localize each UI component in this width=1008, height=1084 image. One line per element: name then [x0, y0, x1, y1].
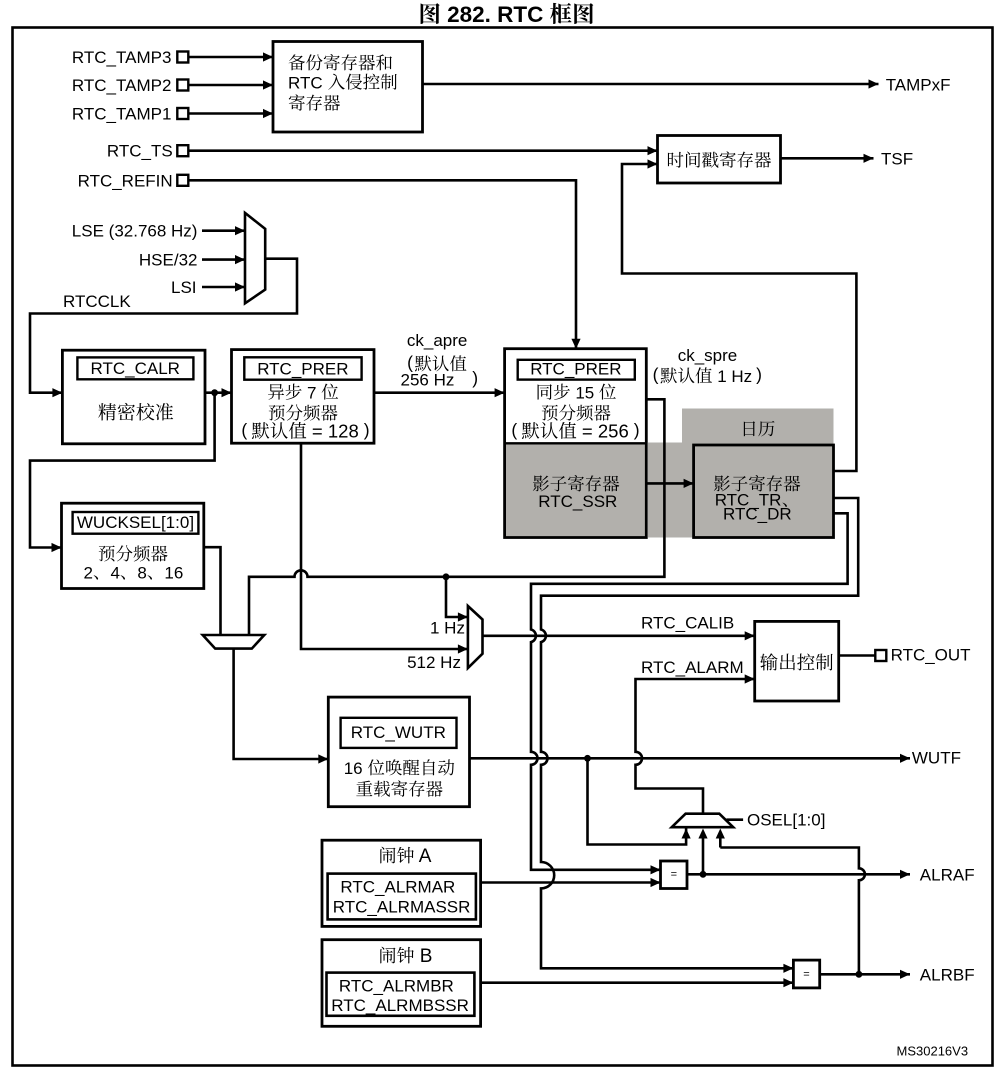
svg-text:ck_apre: ck_apre [407, 331, 467, 350]
svg-text:RTC_ALRMAR: RTC_ALRMAR [340, 878, 455, 897]
svg-text:RTC_CALR: RTC_CALR [91, 359, 180, 378]
wire RTC_TAMP3 [188, 56, 273, 59]
backup and tamper control registers box [273, 42, 423, 133]
arrow OSEL input ALRAF [698, 829, 707, 839]
arrow into async prescaler [222, 388, 232, 397]
wire calendar to timestamp [622, 164, 856, 471]
arrow RTCCLK into RTC_CALR [52, 388, 62, 397]
async prescaler text1 [268, 384, 302, 400]
sync prescaler text2 [542, 404, 611, 420]
RTC_WUTR title box [341, 718, 457, 748]
wire alarm B out [481, 981, 794, 984]
TR DR text1 [714, 475, 800, 491]
arrow into WUCKSEL prescaler [52, 543, 62, 552]
pad RTC_TAMP1 [177, 108, 188, 119]
svg-text:RTC_SSR: RTC_SSR [538, 492, 617, 511]
wire RTC_REFIN [188, 180, 576, 348]
wire TAMPxF [423, 83, 879, 86]
svg-text:RTC_DR: RTC_DR [723, 505, 792, 524]
clock source mux [245, 213, 265, 303]
arrow TAMPxF [869, 79, 879, 88]
pad RTC_OUT [875, 650, 886, 661]
wire calendar rail B [541, 498, 858, 968]
wire RTC_CALIB [483, 634, 755, 637]
WUCKSEL title box [73, 512, 199, 534]
WUCKSEL text1 [99, 545, 168, 561]
wire RTC_OUT [839, 654, 876, 657]
arrow into RTC_WUTR [318, 754, 328, 763]
arrow OSEL input ALRBF [716, 829, 725, 839]
arrow calendar into timestamp [648, 159, 658, 168]
wire OSEL input ALRAF [702, 837, 705, 874]
svg-text:RTC_REFIN: RTC_REFIN [78, 171, 173, 190]
wire RTCCLK branch to WUCKSEL [30, 393, 215, 548]
arrow alarm B into comparator B [783, 978, 793, 987]
timestamp register box [658, 136, 781, 184]
RTC_WUTR text2 [356, 780, 442, 796]
pad RTC_TAMP3 [177, 52, 188, 63]
svg-text:1 Hz: 1 Hz [430, 618, 465, 637]
calibration output mux [468, 606, 483, 668]
svg-text:RTC_TAMP2: RTC_TAMP2 [72, 76, 172, 95]
svg-text:RTC_ALRMBSSR: RTC_ALRMBSSR [331, 996, 469, 1015]
svg-text:RTCCLK: RTCCLK [63, 292, 131, 311]
svg-text:RTC_WUTR: RTC_WUTR [351, 723, 446, 742]
arrow LSE [235, 226, 245, 235]
arrow alarm A into comparator A [651, 878, 661, 887]
arrow RTC_TS into timestamp box [648, 146, 658, 155]
svg-text:RTC: RTC [288, 73, 327, 92]
svg-text:7: 7 [302, 383, 321, 402]
alarm A box [322, 840, 481, 926]
svg-text:): ) [364, 420, 370, 440]
svg-text:ALRAF: ALRAF [920, 865, 975, 884]
comparator B box [793, 960, 819, 988]
async prescaler text2 [269, 404, 338, 420]
svg-text:=: = [803, 968, 809, 980]
wire ck_spre rail [249, 399, 664, 635]
calendar shade bridge [648, 443, 695, 538]
pad RTC_REFIN [177, 175, 188, 186]
svg-text:2: 2 [84, 563, 93, 582]
wire 512 Hz [301, 443, 468, 649]
calendar shade top [682, 409, 834, 447]
wire RTCCLK [30, 259, 297, 393]
wire RTC_TAMP2 [188, 84, 273, 87]
svg-text:TSF: TSF [881, 149, 913, 168]
wire wakeup mux out [234, 649, 329, 759]
arrow RTC_TAMP1 [263, 109, 273, 118]
wire ck_apre [374, 391, 505, 394]
svg-text:OSEL[1:0]: OSEL[1:0] [747, 811, 825, 830]
svg-text:(: ( [241, 420, 247, 440]
arrow 1 Hz into mux [458, 612, 468, 621]
title 图 282. RTC 框图 [421, 3, 440, 24]
arrow RTC_ALARM into output control [745, 674, 755, 683]
wire TSF [781, 157, 874, 160]
junction RTCCLK branch [211, 389, 218, 396]
sync prescaler box [505, 349, 647, 538]
svg-text:RTC_TS: RTC_TS [107, 142, 173, 161]
pad RTC_TS [177, 145, 188, 156]
async prescaler box [232, 350, 375, 444]
svg-text:15: 15 [571, 383, 599, 402]
RTC_CALR box [62, 350, 205, 444]
svg-text:282. RTC: 282. RTC [441, 2, 550, 27]
junction comparator A to OSEL [700, 871, 707, 878]
wakeup prescaler mux [203, 635, 265, 649]
junction ck_spre 1Hz [443, 573, 450, 580]
svg-text:8: 8 [137, 563, 146, 582]
svg-text:=: = [671, 869, 677, 881]
svg-text:(: ( [653, 365, 659, 385]
shadow registers RTC_TR RTC_DR box [694, 445, 834, 538]
wire LSI [202, 286, 245, 289]
OSEL output mux [672, 814, 734, 828]
output control box [755, 621, 839, 701]
arrow calendar into comparator B [783, 964, 793, 973]
pad RTC_TAMP2 [177, 80, 188, 91]
shadow register RTC_SSR text1 [533, 475, 619, 491]
arrow ALRBF [900, 970, 910, 979]
arrow RTC_TAMP3 [263, 52, 273, 61]
wire RTC_TS [188, 149, 657, 152]
wire RTC_CALR out [205, 391, 232, 394]
arrow RTC_CALIB into output control [745, 631, 755, 640]
arrow calendar into comparator A [651, 865, 661, 874]
svg-text:): ) [756, 365, 762, 385]
backup box text line1 [289, 54, 392, 70]
arrow ck_apre into sync prescaler [495, 388, 505, 397]
arrow into TR DR [684, 479, 694, 488]
wire WUCKSEL out [204, 547, 221, 635]
wire ALRBF [820, 973, 910, 976]
svg-text:1 Hz: 1 Hz [713, 367, 753, 386]
wire RTC_ALARM stub [745, 678, 754, 681]
arrow ALRAF [900, 870, 910, 879]
comparator A box [661, 861, 688, 889]
output control text [760, 653, 833, 670]
svg-text:RTC_TAMP1: RTC_TAMP1 [72, 104, 172, 123]
junction ALRBF to OSEL [856, 971, 863, 978]
arrow RTC_TAMP2 [263, 80, 273, 89]
alarm A title [380, 847, 414, 864]
svg-text:512 Hz: 512 Hz [407, 653, 461, 672]
svg-text:TAMPxF: TAMPxF [886, 75, 951, 94]
wire WUTF [470, 757, 911, 760]
svg-text:RTC_ALRMBR: RTC_ALRMBR [339, 976, 454, 995]
svg-text:256 Hz: 256 Hz [401, 370, 455, 389]
svg-text:A: A [415, 846, 432, 867]
wire OSEL input WUTF [588, 758, 687, 844]
svg-text:RTC_CALIB: RTC_CALIB [641, 614, 734, 633]
svg-text:RTC_ALARM: RTC_ALARM [641, 658, 744, 677]
shadow RTC_SSR shade [506, 444, 645, 537]
svg-text:): ) [472, 368, 478, 388]
arrow 512 Hz into mux [458, 644, 468, 653]
alarm B title [380, 947, 414, 964]
svg-text:B: B [415, 946, 433, 967]
RTC_CALR title box [77, 357, 193, 379]
svg-text:LSE (32.768 Hz): LSE (32.768 Hz) [72, 222, 198, 241]
wire RTC_ALARM [636, 679, 746, 814]
svg-text:): ) [634, 420, 640, 440]
wire calendar rail A [531, 513, 848, 870]
WUCKSEL box [62, 503, 204, 588]
junction WUTF to OSEL [584, 755, 591, 762]
sync prescaler title box [518, 360, 635, 380]
wire RTC_TAMP1 [188, 112, 273, 115]
svg-text:RTC_OUT: RTC_OUT [891, 645, 971, 664]
arrow TSF [864, 154, 874, 163]
svg-text:= 256: = 256 [577, 421, 629, 442]
svg-text:RTC_TAMP3: RTC_TAMP3 [72, 48, 172, 67]
svg-text:WUTF: WUTF [912, 749, 961, 768]
RTC_CALR text [98, 403, 173, 421]
async prescaler title box [244, 357, 361, 379]
arrow WUTF [900, 754, 910, 763]
RTC_WUTR box [328, 697, 469, 807]
wire ALRAF [687, 873, 910, 876]
sync prescaler text1 [538, 384, 570, 400]
wire HSE/32 [202, 258, 245, 261]
svg-text:MS30216V3: MS30216V3 [897, 1043, 969, 1058]
svg-text:RTC_ALRMASSR: RTC_ALRMASSR [333, 898, 471, 917]
svg-text:4: 4 [111, 563, 120, 582]
svg-text:16: 16 [344, 759, 368, 778]
arrow HSE/32 [235, 255, 245, 264]
svg-text:= 128: = 128 [307, 421, 359, 442]
backup box text line3 [289, 94, 340, 110]
alarm B box [322, 940, 481, 1027]
svg-text:LSI: LSI [171, 278, 197, 297]
svg-text:HSE/32: HSE/32 [139, 251, 198, 270]
wire OSEL input ALRBF [720, 837, 865, 974]
alarm B register box [327, 973, 475, 1016]
arrow OSEL input WUTF [682, 829, 691, 839]
svg-text:ALRBF: ALRBF [920, 965, 975, 984]
svg-text:RTC_PRER: RTC_PRER [257, 360, 348, 379]
label 日历 calendar [744, 421, 775, 437]
sync prescaler divider [505, 442, 647, 444]
wire alarm A out [481, 881, 661, 884]
svg-text:(: ( [511, 420, 517, 440]
alarm A register box [328, 874, 476, 920]
wire RTC_SSR to TR DR [646, 482, 693, 485]
svg-text:RTC_PRER: RTC_PRER [530, 360, 621, 379]
wire 1 Hz [446, 577, 468, 617]
svg-text:WUCKSEL[1:0]: WUCKSEL[1:0] [77, 513, 194, 532]
arrow RTC_REFIN into sync prescaler [571, 339, 580, 349]
arrow LSI [235, 282, 245, 291]
svg-text:ck_spre: ck_spre [678, 346, 738, 365]
svg-text:16: 16 [164, 563, 183, 582]
OSEL select line [727, 818, 744, 821]
timestamp box text [668, 151, 771, 167]
wire LSE [202, 229, 245, 232]
